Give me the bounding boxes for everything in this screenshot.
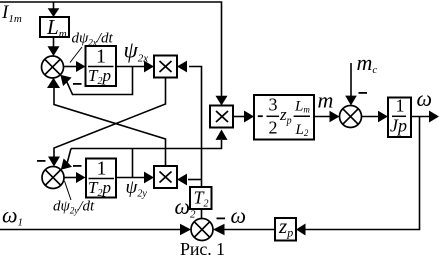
block Lm box [40,17,69,37]
wire psi2x feedback branch [67,67,133,95]
summing junction sum4 [191,219,213,241]
svg-text:3: 3 [269,94,278,114]
wire psi2y distribution line [71,140,222,149]
wire gain box to sum3 [314,116,331,118]
wire M1 output line B [54,78,166,159]
arrow into box2 [76,172,86,183]
minus sign sum2 top [37,160,46,162]
wire sum1 to box1 [64,66,78,68]
wire I1m top line [0,2,222,97]
block T2 box [190,187,212,209]
multiplier M3 box [210,106,233,128]
svg-text:1: 1 [96,46,106,68]
multiplier M1 box [154,56,177,78]
arrow into M3 bottom [216,130,228,140]
minus sign sum2 feedback [73,165,82,167]
arrow into M2 left [144,172,154,184]
arrow omega out [429,111,439,123]
arrow zp into sum4 [213,224,225,236]
wire sum3 to Jp [362,116,380,118]
svg-text:m: m [318,88,334,113]
minus sign sum4 right [217,218,226,220]
wire omega feedback [305,117,420,230]
wire omega1 input [0,229,182,231]
svg-text:ω: ω [417,86,433,111]
arrow omega1 into sum4 [180,224,191,236]
block gain box [254,95,314,140]
wire M3 output [233,116,246,118]
label gain box content [258,115,263,117]
arrow lineB into sum2 top [48,157,60,167]
arrow into gain box [244,111,254,123]
wire psi2y feedback diagonal [67,149,71,164]
arrow feedback into sum1 [60,75,71,86]
arrow lineA into sum1 bottom [47,78,60,88]
wire zp to sum4 [224,229,275,231]
wire Lm to sum1 [53,37,55,48]
multiplier M2 cross [160,172,172,183]
wire M2 output line A [54,87,166,166]
arrow into M2 right [177,174,187,186]
svg-text:Jp: Jp [390,116,407,136]
multiplier M3 cross [216,111,228,122]
svg-text:1: 1 [97,158,107,180]
multiplier M1 cross [160,61,172,72]
multiplier M2 box [154,166,177,188]
summing junction sum2 [42,167,64,189]
arrow into zp box [296,224,306,236]
wire psi2y branch up [132,149,134,178]
block 1/Jp box [388,98,411,138]
svg-text:1: 1 [396,96,405,116]
leader line dpsi2y [65,181,72,200]
minus sign sum1 feedback [73,83,82,85]
arrow psi2y feedback into sum2 [61,158,72,169]
svg-text:Рис. 1: Рис. 1 [180,239,225,258]
arrow mc into sum3 [345,96,357,106]
wire mc input [350,63,352,97]
wire sum4 to T2 [201,209,203,219]
arrow into box1 [76,61,86,72]
wire omega output [411,116,430,118]
arrow into Jp box [378,111,388,123]
wire sum2 to box2 [64,177,78,179]
summing junction sum1 [42,56,64,78]
arrow into M1 left [144,61,154,73]
wire psi2x output [116,66,146,68]
wire omega2 vertical [189,67,202,188]
block 1/T2p lower box [86,159,116,198]
arrow into sum3 [330,111,340,123]
wire branch to Lm [53,2,55,10]
block 1/T2p upper box [86,46,117,86]
svg-text:ω: ω [231,203,247,228]
wire omega2 branch to M2 [188,179,202,181]
arrow into M3 top [216,96,228,106]
minus sign sum3 mc [359,92,368,94]
wire psi2y output [116,177,146,179]
arrow into Lm [48,8,60,17]
block zp box [275,218,296,241]
leader line dpsi2x [70,47,82,63]
arrow into M1 right [177,61,187,73]
svg-text:2: 2 [269,118,278,138]
summing junction sum3 [340,106,362,128]
arrow Lm to sum1 [48,46,60,56]
